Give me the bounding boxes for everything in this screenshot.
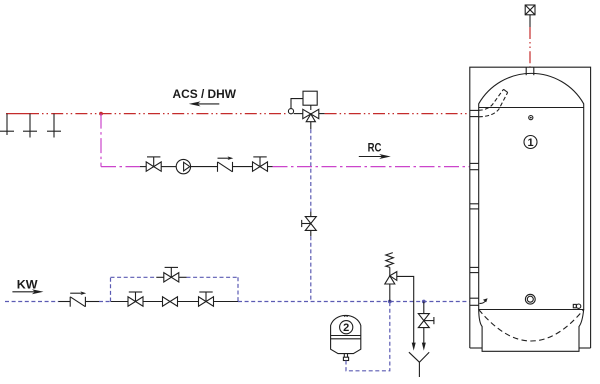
valve: RC gate valve 1: [146, 157, 161, 171]
tank manhole: [525, 294, 535, 304]
air vent V1: [525, 5, 535, 27]
expansion vessel 2: [331, 315, 361, 360]
tank connection stub: spare 2: [470, 267, 479, 272]
wire: KW bypass loop (blue dashed): [111, 277, 239, 301]
valve: KW gate valve 1: [128, 292, 143, 306]
svg-text:RC: RC: [368, 141, 382, 155]
valve: bypass gate valve: [164, 267, 179, 282]
valve: KW globe valve 2: [163, 297, 178, 306]
check valve on KW: [70, 291, 86, 306]
valve: KW gate valve 3: [199, 292, 214, 306]
draw-off tap 3: [47, 114, 61, 138]
tank dip pipe (DHW outlet, dashed): [479, 89, 508, 117]
arrow: DHW flow (left): [189, 101, 220, 106]
svg-text:KW: KW: [17, 278, 38, 292]
tank sensor dot: [529, 116, 533, 120]
tank vent stub: [526, 67, 534, 75]
svg-text:2: 2: [343, 322, 349, 334]
tank inner vessel: [479, 73, 584, 309]
node: safety-valve junction: [388, 300, 392, 304]
wire: DHW main line (red dash-dot-dot): [6, 113, 469, 115]
tank connection stub: DHW: [470, 110, 479, 116]
tank label 1: [524, 136, 537, 150]
wire: SV discharge pipe: [397, 276, 416, 350]
valve: drain valve: [418, 302, 434, 351]
arrow: RC flow (right): [359, 154, 391, 159]
arrow: KW flow (right): [12, 289, 43, 294]
svg-text:ACS / DHW: ACS / DHW: [173, 87, 237, 101]
svg-text:1: 1: [527, 137, 533, 149]
tank dished bottom (dashed): [479, 310, 584, 342]
pump P1: [176, 159, 190, 173]
wire: cold feed to TMV (blue dashed vertical): [310, 122, 312, 302]
valve: RC gate valve 2: [253, 157, 268, 171]
valve: isolation on TMV cold feed: [302, 217, 317, 231]
thermostatic mixing valve TMV: [288, 91, 318, 122]
node: drain junction: [422, 300, 426, 304]
KW inlet diffuser: [480, 298, 488, 303]
safety relief valve SV: [385, 253, 397, 302]
tank skirt: [479, 310, 584, 352]
tank connection stub: spare 1: [470, 204, 479, 209]
node: DHW/RC junction: [99, 112, 103, 116]
wire: KW main line (blue dashed): [5, 301, 469, 303]
draw-off tap 2: [23, 114, 37, 138]
wire: vent line (red dash-dot-dot vertical): [529, 27, 531, 67]
tank outer casing: [470, 67, 591, 348]
tank drain boss: [573, 304, 581, 308]
tank connection stub: KW inlet: [470, 298, 479, 305]
tank connection stub: RC: [470, 163, 479, 169]
tundish funnel: [409, 352, 429, 377]
wire: RC line (magenta dash-dot): [101, 114, 469, 167]
draw-off tap 1: [0, 114, 14, 135]
check valve on RC: [218, 156, 234, 171]
wire: expansion vessel connection (blue dashed): [346, 302, 390, 371]
